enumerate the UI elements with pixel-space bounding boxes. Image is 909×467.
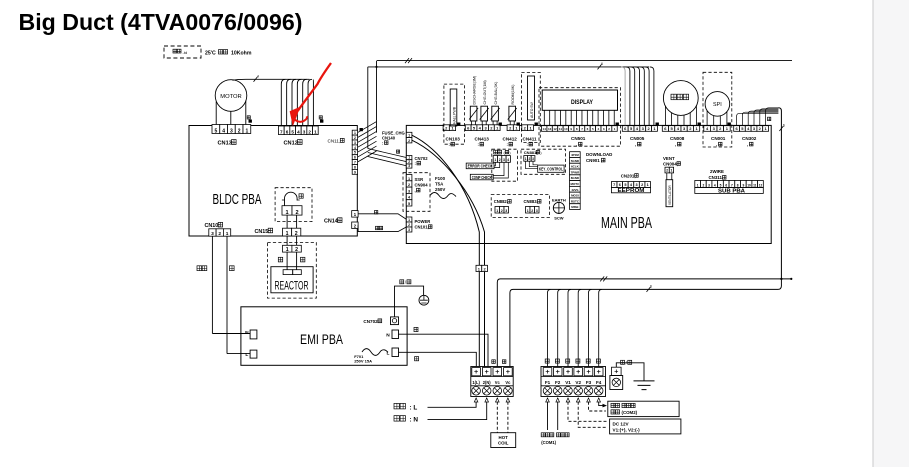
svg-text:CN004,: CN004, [663,161,678,166]
svg-text:CN008: CN008 [670,136,685,141]
right bus wire [778,108,781,279]
svg-text:CN140: CN140 [382,136,396,141]
svg-text:4: 4 [222,128,225,134]
svg-text:2: 2 [295,247,298,253]
svg-text:2: 2 [641,183,643,187]
svg-text:3: 3 [211,231,214,237]
svg-text:5GND: 5GND [571,159,580,163]
svg-text:2: 2 [354,136,356,140]
svg-text:7: 7 [731,183,733,187]
svg-text:6CLK: 6CLK [571,165,580,169]
svg-text:1: 1 [286,231,289,237]
svg-text:2WIRE: 2WIRE [710,169,724,174]
reactor plug connector 1 2 [283,245,292,252]
svg-text:CHG-BAL(3K): CHG-BAL(3K) [494,82,498,105]
svg-text:8: 8 [354,165,356,169]
svg-text:DOWNLOAD: DOWNLOAD [586,152,612,157]
svg-text:1: 1 [286,247,289,253]
svg-text:5: 5 [408,202,410,206]
svg-text:: N: : N [410,417,419,424]
svg-text:CN412: CN412 [503,137,518,142]
connector CN412 [507,125,513,131]
svg-text:MOTC: MOTC [570,182,580,186]
display dashed box [539,88,620,147]
connector POWER CN101 [406,217,412,222]
thermistor ROOM(10K) [509,106,516,121]
svg-text:COMP CHECK: COMP CHECK [472,175,492,180]
svg-text:3: 3 [303,129,306,134]
room sensor component [528,76,535,120]
CN005 drop wires [621,67,625,126]
top bundle wire B [368,66,649,68]
svg-text:REACTOR: REACTOR [275,281,309,293]
svg-text:DISPLAY: DISPLAY [571,99,593,106]
reactor dashed box [268,243,317,299]
svg-text:4: 4 [354,146,356,150]
svg-text:CN311,: CN311, [709,175,724,180]
svg-text:,: , [576,142,577,147]
svg-text:-td: -td [183,50,188,55]
display unit [542,90,617,110]
wires plug to reactor [286,252,288,270]
TB2 terminal F3 [584,368,593,376]
svg-text:CN501: CN501 [571,136,586,141]
svg-text:3: 3 [408,189,410,193]
svg-text:MISE: MISE [571,205,578,209]
thermistor CHG-BAL(3K) [492,106,499,121]
svg-text:KEY_CONTROL: KEY_CONTROL [539,167,563,172]
2WIRE CN311 label [710,169,724,174]
connector CN702 (main) [406,156,412,160]
ERROR CHECK box [466,163,494,169]
svg-text::: : [527,142,528,147]
wire color labels [197,266,202,271]
svg-text:2: 2 [528,157,530,161]
svg-text:POWER: POWER [415,219,431,224]
connector FUSE_CHG CN140 [406,132,412,137]
TB1 terminal 2(N) [482,368,491,376]
connector CN103 [443,125,449,131]
EEPROM box [611,187,650,192]
earth terminal [610,376,623,390]
motor top wire to CN12 (4-wire bundle) [233,79,310,80]
svg-text:3: 3 [505,209,507,213]
TB2 terminal F4 [594,368,603,376]
svg-text:SSR: SSR [415,177,424,182]
L feed line [428,402,477,408]
svg-text:14: 14 [543,127,547,131]
svg-text:2: 2 [295,210,298,216]
connector SSR CN904 [406,175,412,181]
svg-text:VENTILATOR: VENTILATOR [668,185,672,205]
svg-text:6: 6 [619,183,621,187]
svg-text:2: 2 [295,231,298,237]
connector CN501 [542,126,547,132]
svg-text:7: 7 [613,183,615,187]
svg-text:CN11,: CN11, [328,138,341,143]
svg-text:1: 1 [408,134,410,138]
svg-text:2: 2 [501,209,503,213]
CN14 wires to POWER CN101 [358,214,406,219]
svg-text:2: 2 [408,183,410,187]
svg-text:1: 1 [670,169,672,173]
SPI circle [705,92,730,117]
svg-text:6: 6 [354,156,356,160]
svg-text:HALL PWB: HALL PWB [452,106,456,124]
CN13 label [218,140,237,147]
svg-text:4: 4 [714,183,716,187]
svg-text:ERROR CHECK: ERROR CHECK [468,164,493,169]
svg-text:(COM2): (COM2) [622,410,638,415]
svg-text:CN005: CN005 [630,136,645,141]
VENT CN004 label [663,156,675,161]
svg-text:5: 5 [720,183,722,187]
svg-text:3: 3 [408,164,410,168]
terminal block TB2 outline [541,367,606,397]
svg-text:250V: 250V [435,187,445,192]
CN411 dashed box [521,73,540,143]
svg-text:12: 12 [553,127,557,131]
display wires [544,110,614,125]
svg-text:8: 8 [737,183,739,187]
svg-text:CN904: CN904 [415,183,429,188]
wire color labels over TB2 [545,359,600,363]
svg-text:F3: F3 [586,380,592,385]
svg-text:CN101,: CN101, [415,225,429,230]
svg-text::: : [478,142,479,147]
svg-text:CN103: CN103 [446,137,461,142]
HOT COIL box [491,433,516,448]
svg-text:6: 6 [650,284,652,288]
CN881 dashed box [521,149,566,174]
svg-text:MOTOR: MOTOR [220,94,241,100]
svg-text:7: 7 [354,161,356,165]
ventilator box [666,180,673,207]
svg-text:250V 15A: 250V 15A [354,358,372,363]
CN881 connector [524,156,528,162]
svg-text:25'C: 25'C [205,51,216,57]
svg-text:CN411: CN411 [523,137,537,142]
svg-text:CN302: CN302 [742,136,757,141]
svg-text:2: 2 [308,129,311,134]
F4 wire with arrow [599,402,603,406]
svg-text:N: N [245,330,249,336]
TB2 terminal V2 [574,368,583,376]
DC 12V box [610,419,681,434]
COM1 wires [547,402,549,430]
svg-text:3: 3 [230,128,233,134]
svg-text:DISCHARGE(3M): DISCHARGE(3M) [473,76,477,105]
connector CN302 [734,126,740,132]
COM1 label [541,433,569,445]
AC source label L [394,403,417,411]
svg-text:CN882,: CN882, [494,199,508,204]
svg-text:EMI PBA: EMI PBA [300,332,343,347]
svg-text::: : [449,142,450,147]
connector CN11 [352,130,357,135]
sensor note box [164,46,201,58]
TB2 terminal V1 [564,368,573,376]
CN201 label [621,173,639,178]
svg-text:7PWR: 7PWR [571,170,581,174]
svg-text:5: 5 [624,183,626,187]
svg-text:1: 1 [314,129,317,134]
svg-text:4: 4 [297,129,300,134]
svg-text::: : [507,142,508,147]
svg-text:N: N [386,333,390,339]
svg-text:CN702: CN702 [415,156,429,161]
hot coil dashed wires [496,402,498,433]
svg-text:F2: F2 [555,380,561,385]
connector CN702 (EMI) [363,319,381,324]
svg-text:EARTH: EARTH [552,198,566,203]
junction bus/A [780,278,782,280]
svg-text::: : [382,141,383,146]
svg-text:V2: V2 [575,380,581,385]
CN008 wires [665,106,696,126]
svg-text:DC 12V: DC 12V [613,421,630,426]
F terminal drop wires [548,289,602,366]
svg-text:HOT: HOT [499,435,509,440]
TB2 terminal F2 [553,368,562,376]
connector CN311 [695,181,701,188]
TB1 terminal 1(L) [472,368,481,376]
CN11 label [328,138,345,143]
earth color label [621,360,632,365]
svg-text:3: 3 [532,157,534,161]
CN12 label [284,140,303,147]
earth wire and symbol [616,363,644,381]
SPI dashed box [703,72,732,147]
svg-text:2: 2 [238,128,241,134]
thermal sensor component [285,192,298,205]
sensor connector 1 2 [282,206,292,215]
svg-text:1: 1 [354,131,356,135]
CN10 wires down to EMI [211,236,213,333]
svg-text:F4: F4 [596,380,602,385]
svg-text:Big Duct (4TVA0076/0096): Big Duct (4TVA0076/0096) [19,9,303,35]
svg-text:F100: F100 [435,176,446,181]
svg-text:,: , [716,142,717,147]
connector CN15 [255,228,273,235]
svg-text:: L: : L [410,405,418,412]
top bundle wire A [377,60,792,62]
thermal sensor dashed box (in BLDC) [275,188,312,222]
ventilator wires [666,173,668,180]
svg-text:3: 3 [354,141,356,145]
svg-text:6: 6 [725,183,727,187]
earth color label [400,280,411,285]
svg-text:1: 1 [494,158,496,162]
svg-text:4: 4 [507,158,509,162]
svg-text:CN001: CN001 [711,136,726,141]
earth wire from CN702 [395,286,424,317]
humidity sensor dashed box [492,149,518,181]
red annotation arrow [298,63,331,111]
hall sensor pwb component [450,89,457,126]
remote sensor circle [663,81,698,116]
key wires [526,161,538,169]
CN883 connector [526,207,531,214]
bundle wire A (to Vc) [497,279,791,367]
svg-text:,: , [747,142,748,147]
svg-text:ROOM(10K): ROOM(10K) [511,85,515,105]
TB1 terminal Vc [504,368,513,376]
svg-text:1: 1 [245,128,248,134]
reactor box [271,267,313,293]
wires sensor to CN15 [286,215,288,228]
svg-text:1: 1 [226,231,229,237]
CN14 label [324,218,342,225]
svg-text:2: 2 [666,169,668,173]
svg-text:Vc: Vc [505,380,511,385]
CN882 CN883 dashed box [491,195,549,218]
svg-text:5: 5 [214,128,217,134]
wire bundle risers [376,61,378,133]
svg-text:6: 6 [286,129,289,134]
svg-text:2: 2 [702,183,704,187]
svg-text:13: 13 [548,127,552,131]
bundle tick 2 [405,58,409,63]
SSR CN904 dashed box [403,173,430,212]
fuse F100 element [430,193,456,199]
svg-text:9: 9 [742,183,744,187]
KEY_CONTROL box [538,165,564,172]
N feed line [428,402,487,420]
svg-text:CN413: CN413 [475,137,490,142]
fuse F701 [362,349,388,356]
svg-text:SPI: SPI [713,102,722,108]
svg-text:Vc: Vc [495,380,501,385]
CN10 label [205,222,223,229]
wire color label [319,116,322,119]
svg-text:,: , [675,142,676,147]
CN702 fan wires from bundle [368,149,407,166]
svg-text:1: 1 [525,157,527,161]
connector CN001 [704,126,711,132]
svg-text:11: 11 [559,127,563,131]
connector CN413 [465,125,471,131]
connector CN10 [209,229,216,236]
svg-text:3: 3 [503,158,505,162]
svg-text:F1: F1 [545,380,551,385]
svg-text:10Kohm: 10Kohm [231,51,252,57]
svg-text:10: 10 [747,183,751,187]
svg-text:42Vb: 42Vb [571,188,578,192]
svg-text:MAIN PBA: MAIN PBA [601,215,652,232]
bundle wire B (to F terminals) [510,279,782,367]
thermistor CHG-OUT(1M) [481,106,488,121]
wire color labels [375,211,378,214]
svg-text:1: 1 [647,183,649,187]
svg-text:EEPROM: EEPROM [618,188,645,194]
svg-text:7: 7 [280,129,283,134]
svg-text:CHG-OUT(1M): CHG-OUT(1M) [483,80,487,104]
TB1 terminal Vc [493,368,502,376]
svg-text:5: 5 [354,151,356,155]
svg-text:(COM1): (COM1) [541,440,556,445]
svg-text:3: 3 [536,209,538,213]
svg-text:T5A: T5A [435,182,444,187]
CN302 riser wires [737,108,779,126]
svg-text:12: 12 [759,183,763,187]
svg-text:2(N): 2(N) [483,380,492,385]
connector CN13 [212,125,220,134]
svg-text:1: 1 [408,218,410,222]
AC power wires (curved) [412,135,479,265]
svg-text:COIL: COIL [498,441,509,446]
protective earth symbol [419,295,429,305]
COMP CHECK box [470,174,493,180]
junction [375,66,377,68]
connector CN12 [279,126,285,135]
color label [768,117,771,120]
svg-text:2: 2 [499,158,501,162]
thermistor DISCHARGE(3M) [470,106,477,121]
wire color labels [278,257,282,262]
svg-text:CN901 ,: CN901 , [586,158,602,163]
F3 dashed wire [589,402,606,411]
svg-text:BLDC PBA: BLDC PBA [213,192,262,208]
svg-text:MOSI: MOSI [571,194,579,198]
CN001 wires [707,111,727,126]
motor M1 circle [215,80,247,112]
svg-text:5: 5 [291,129,294,134]
motor wires to CN13 [215,102,217,125]
sensor note text [205,50,252,57]
svg-text:8GND: 8GND [571,176,580,180]
svg-text:SCW: SCW [554,216,564,221]
connector color marks [249,120,731,132]
L wire EMI to terminal [399,352,477,366]
TB2 terminal F1 [543,368,552,376]
svg-text:CN883,: CN883, [524,199,538,204]
svg-text:SUB PBA: SUB PBA [718,189,745,195]
humidity connector [493,156,497,163]
AC source label N [394,416,418,424]
connector CN14 [352,211,358,218]
bundle tick 4 [254,77,258,82]
EMI PBA board outline [241,307,407,366]
svg-text:6: 6 [783,124,785,128]
svg-text:9: 9 [354,170,356,174]
connector CN411 [522,125,528,131]
svg-text:AUTO SW: AUTO SW [530,101,534,118]
AC wires below plug [478,272,480,367]
page edge strip [874,0,909,467]
svg-text:,: , [415,188,416,193]
svg-text:1: 1 [527,209,529,213]
hall sensor pwb dashed box [444,84,465,144]
svg-text:CN201,: CN201, [621,173,636,178]
svg-text:1: 1 [496,209,498,213]
svg-text:4P1M: 4P1M [571,153,579,157]
svg-text:2: 2 [408,223,410,227]
svg-text::: : [415,161,416,166]
connector CN201 [611,182,617,188]
connector CN008 [662,126,668,132]
svg-text:2: 2 [408,139,410,143]
wire color labels over TB1 Vc [492,360,506,364]
svg-text:VENT: VENT [663,156,675,161]
connector VENT CN004 [665,167,669,173]
wires CN15 to plug [286,236,288,245]
wire color label [247,116,250,119]
terminal block TB1 outline [471,367,513,397]
svg-text:1: 1 [408,177,410,181]
svg-text:6: 6 [601,62,603,66]
check wires [493,162,508,178]
